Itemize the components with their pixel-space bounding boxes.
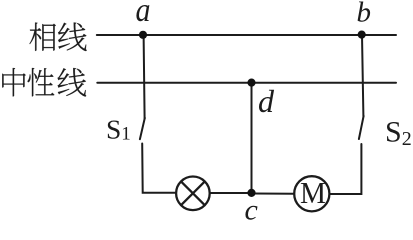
wire neutral (中性线) horizontal	[97, 82, 396, 84]
wire live (相线) horizontal	[97, 34, 396, 36]
node c (junction dot)	[247, 189, 255, 197]
label 相线 (live wire label)	[30, 22, 87, 50]
switch S1 blade (open)	[140, 118, 145, 139]
wire lamp to node c	[210, 192, 252, 194]
svg-text:c: c	[245, 194, 258, 224]
switch S2 blade (open)	[359, 116, 364, 139]
svg-text:d: d	[258, 83, 275, 119]
svg-text:S2: S2	[385, 115, 412, 150]
svg-text:b: b	[357, 0, 372, 29]
wire node d down to node c	[251, 83, 253, 193]
wire from node b down to switch S2	[362, 35, 363, 116]
wire from node a down to switch S1	[144, 35, 145, 119]
node a (junction dot)	[139, 31, 147, 39]
label 中性线 (neutral wire label)	[2, 68, 86, 96]
node d (junction dot)	[247, 79, 255, 87]
motor M	[294, 176, 329, 211]
lamp (circle with X)	[176, 177, 210, 211]
wire motor to bottom-right corner and up	[330, 144, 362, 194]
node b (junction dot)	[358, 30, 366, 38]
svg-text:S1: S1	[106, 114, 131, 145]
wire S1 lower stub down to bottom-left corner	[142, 144, 176, 193]
wire node c to motor	[252, 193, 295, 195]
svg-text:M: M	[300, 175, 326, 210]
svg-text:a: a	[136, 0, 151, 29]
